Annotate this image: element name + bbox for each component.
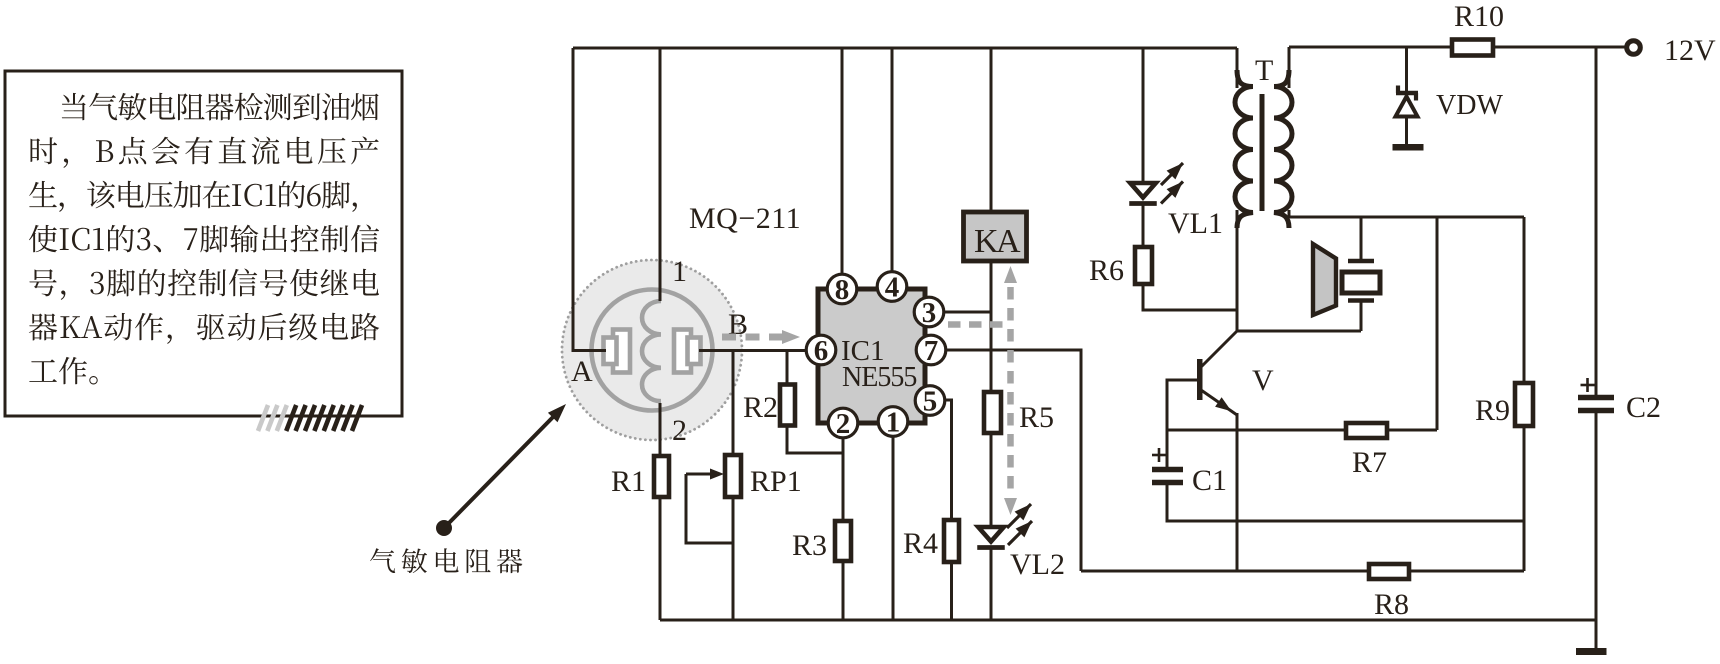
wire R8 right bbox=[1409, 570, 1524, 573]
relay KA bbox=[964, 212, 1027, 261]
svg-text:T: T bbox=[1255, 54, 1273, 87]
wire top rail bbox=[573, 47, 1237, 50]
capacitor C1 bbox=[1152, 448, 1183, 483]
wire pin1 down bbox=[892, 436, 895, 620]
svg-text:VDW: VDW bbox=[1436, 90, 1503, 121]
svg-text:R5: R5 bbox=[1019, 401, 1054, 434]
caption gas sensor bbox=[370, 548, 522, 573]
paragraph line 2 bbox=[31, 137, 379, 168]
resistor R6 bbox=[1135, 247, 1152, 284]
svg-text:R3: R3 bbox=[792, 529, 827, 562]
wire secondary top bbox=[1288, 47, 1291, 88]
wire R1 bottom bbox=[659, 497, 662, 620]
wire primary bottom bbox=[1236, 210, 1239, 331]
wire emitter down bbox=[1236, 413, 1239, 571]
svg-text:R1: R1 bbox=[611, 465, 646, 498]
resistor R9 bbox=[1515, 383, 1533, 426]
wire R3 bottom bbox=[842, 561, 845, 620]
svg-text:RP1: RP1 bbox=[750, 465, 802, 498]
wire RP1 bottom bbox=[732, 497, 735, 620]
wire C2 to ground bbox=[1595, 412, 1598, 650]
wire pin4 drop bbox=[891, 48, 894, 286]
svg-text:VL2: VL2 bbox=[1010, 548, 1065, 581]
svg-text:2: 2 bbox=[836, 408, 851, 440]
paragraph line 3 bbox=[29, 181, 357, 212]
wire VL1 to R6 bbox=[1142, 204, 1145, 247]
hatch marks on text box bbox=[258, 405, 362, 431]
wire R2 top bbox=[786, 351, 789, 386]
wire C1 bottom bbox=[1167, 485, 1524, 521]
wire VL1 drop bbox=[1142, 48, 1145, 183]
svg-text:R10: R10 bbox=[1454, 0, 1504, 33]
wire R5 to VL2 bbox=[990, 433, 993, 527]
svg-text:7: 7 bbox=[924, 335, 939, 367]
wire base link bbox=[1167, 380, 1197, 467]
paragraph line 7 bbox=[29, 357, 97, 385]
wire R4 bottom bbox=[950, 562, 953, 620]
speaker with piezo element bbox=[1313, 244, 1380, 315]
paragraph line 6 bbox=[29, 313, 379, 344]
wire pin3 to KA net bbox=[943, 311, 991, 314]
svg-text:MQ−211: MQ−211 bbox=[689, 202, 801, 235]
text box border bbox=[5, 71, 402, 416]
svg-text:3: 3 bbox=[922, 297, 937, 329]
svg-text:12V: 12V bbox=[1664, 34, 1716, 67]
transistor V bbox=[1197, 331, 1237, 415]
wire bottom rail bbox=[660, 619, 1596, 622]
zener diode VDW bbox=[1393, 86, 1424, 151]
svg-text:R8: R8 bbox=[1374, 588, 1409, 621]
wire R7 left bbox=[1167, 429, 1346, 432]
resistor R10 bbox=[1452, 40, 1493, 56]
paragraph line 4 bbox=[29, 225, 379, 253]
wire secondary bottom rail bbox=[1289, 210, 1524, 217]
svg-text:2: 2 bbox=[672, 414, 687, 447]
svg-text:1: 1 bbox=[672, 255, 687, 288]
resistor R2 bbox=[780, 385, 795, 426]
svg-text:6: 6 bbox=[814, 335, 829, 367]
wire R9 top bbox=[1523, 217, 1526, 383]
svg-text:R9: R9 bbox=[1475, 394, 1510, 427]
svg-text:KA: KA bbox=[974, 223, 1021, 260]
wire primary top bbox=[1236, 48, 1239, 88]
gas sensor MQ-211 bbox=[562, 260, 742, 440]
resistor R3 bbox=[835, 521, 851, 561]
wire R7 right bbox=[1387, 429, 1437, 432]
wire R2 bottom elbow bbox=[787, 425, 843, 453]
wire pin5 to R4 bbox=[944, 400, 952, 520]
transformer T bbox=[1235, 70, 1292, 228]
resistor R7 bbox=[1346, 423, 1387, 438]
svg-text:R7: R7 bbox=[1352, 446, 1387, 479]
wire B node bbox=[699, 349, 806, 352]
wire VL2 bottom bbox=[990, 548, 993, 620]
wire KA bottom to R5 bbox=[990, 262, 993, 392]
op-amp timer IC1 NE555 with pins 1-8 bbox=[806, 272, 946, 441]
wire pin8 drop bbox=[841, 48, 844, 289]
resistor R5 bbox=[984, 392, 1001, 433]
terminal 12V bbox=[1627, 41, 1641, 55]
wire sensor pin1 bbox=[659, 48, 662, 301]
svg-text:VL1: VL1 bbox=[1168, 207, 1223, 240]
pointer dot bbox=[436, 520, 452, 536]
wire RP1 wiper link bbox=[686, 474, 733, 543]
svg-text:4: 4 bbox=[885, 272, 900, 304]
svg-text:V: V bbox=[1252, 364, 1274, 397]
potentiometer RP1 bbox=[686, 455, 741, 497]
wire pin2 to R3 bbox=[842, 437, 845, 521]
wire R9 bottom link bbox=[1523, 426, 1526, 571]
wire RP1 top bbox=[732, 351, 735, 456]
svg-text:C2: C2 bbox=[1626, 391, 1661, 424]
wire R6 bottom bbox=[1143, 284, 1237, 310]
dashed arrow B bbox=[722, 334, 783, 341]
wire sensor pin2 to R1 bbox=[659, 403, 662, 456]
wire piezo top bbox=[1360, 217, 1363, 261]
wire piezo bottom bbox=[1360, 301, 1363, 332]
pointer arrow bbox=[444, 414, 556, 528]
resistor R4 bbox=[944, 520, 959, 562]
wire VDW riser bbox=[1405, 47, 1408, 92]
svg-text:R2: R2 bbox=[743, 391, 778, 424]
LED VL1 bbox=[1130, 183, 1156, 198]
svg-text:C1: C1 bbox=[1192, 464, 1227, 497]
wire A drop bbox=[573, 48, 606, 351]
svg-text:R4: R4 bbox=[903, 527, 938, 560]
ground bbox=[1576, 648, 1607, 655]
svg-text:5: 5 bbox=[923, 386, 938, 418]
resistor R1 bbox=[654, 456, 669, 497]
svg-text:R6: R6 bbox=[1089, 254, 1124, 287]
svg-text:NE555: NE555 bbox=[842, 362, 916, 393]
wire KA top bbox=[990, 48, 993, 211]
wire 12V rail bbox=[1289, 46, 1627, 49]
svg-text:A: A bbox=[571, 355, 593, 388]
paragraph line 5 bbox=[29, 269, 379, 300]
wire R7 riser bbox=[1436, 217, 1439, 430]
capacitor C2 bbox=[1578, 378, 1614, 411]
LED VL2 bbox=[978, 527, 1004, 542]
resistor R8 bbox=[1369, 564, 1409, 579]
paragraph line 1 bbox=[62, 93, 379, 121]
wire R8 left bbox=[1081, 570, 1369, 573]
svg-text:1: 1 bbox=[886, 407, 901, 439]
wire speaker bottom rail bbox=[1237, 330, 1361, 333]
wire pin7 right bbox=[945, 350, 1081, 571]
wire C2 riser bbox=[1595, 47, 1598, 396]
svg-text:8: 8 bbox=[835, 274, 850, 306]
dashed line from pin3 bbox=[948, 321, 1007, 328]
dashed arrow to KA and VL2 bbox=[1007, 287, 1014, 492]
